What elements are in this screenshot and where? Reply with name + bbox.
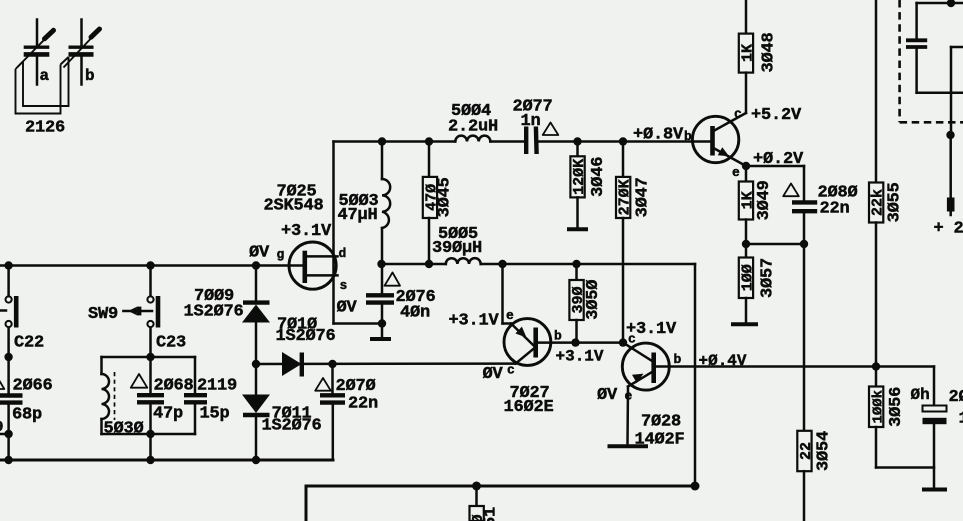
label 0V (source) [337, 299, 358, 318]
svg-text:+3.1V: +3.1V [556, 348, 604, 366]
label 2076 [396, 288, 436, 307]
svg-text:e: e [732, 165, 740, 180]
svg-text:4Øn: 4Øn [400, 304, 430, 323]
svg-text:+5.2V: +5.2V [751, 106, 802, 125]
svg-text:1n: 1n [521, 112, 541, 131]
label 1S2076 (7011) [262, 417, 322, 436]
svg-text:ØV: ØV [337, 299, 358, 318]
label 3045 [436, 177, 455, 217]
svg-text:SW9: SW9 [88, 305, 118, 324]
svg-text:3Ø48: 3Ø48 [760, 32, 779, 72]
tank group bottom wire y=434 [102, 433, 196, 436]
capacitor C2076 40n [366, 295, 394, 336]
label 2SK548 [264, 197, 324, 216]
cut label 10 [959, 410, 963, 429]
label + 2 (cut) [934, 220, 963, 239]
label +0.8V [633, 126, 684, 145]
label 7010 [277, 316, 317, 335]
svg-text:ØV: ØV [597, 386, 618, 405]
pin label b [85, 67, 95, 85]
module capacitor [906, 3, 963, 93]
node dot at (951,3) [947, 0, 955, 7]
ground bar (right cap) [922, 488, 947, 492]
top wire y=141.5 (drain net) [334, 140, 713, 143]
svg-text:1ØØk: 1ØØk [871, 390, 887, 424]
label 3057 [759, 258, 778, 298]
label 5005 [438, 225, 478, 244]
svg-text:e: e [506, 308, 514, 323]
node dot at (876,366.5) [872, 362, 880, 370]
node dot at (950.5,135) [946, 131, 954, 139]
node dot at (746,244) [742, 240, 750, 248]
label 2077 [513, 98, 553, 117]
resistor R3047 270K [616, 142, 634, 343]
resistor R3056 100k [869, 367, 934, 468]
capacitor C2070 22n [320, 364, 345, 460]
resistor R3046 120K [570, 142, 588, 228]
label 2070 [336, 377, 376, 396]
dashed module outline [900, 0, 963, 122]
capacitor C2080 22n [792, 166, 817, 244]
pin label b (7028) [674, 352, 682, 367]
wire y=244 [746, 243, 804, 246]
node dot at (256,364) [252, 360, 260, 368]
label +3.1V (7028 collector) [626, 320, 677, 339]
svg-text:a: a [40, 67, 50, 85]
ground bar (7028 emitter) [608, 444, 649, 448]
pin label b (7027) [554, 329, 562, 344]
resistor R3054 22 [797, 431, 815, 521]
label 0h [911, 386, 930, 404]
adjustment triangle of 2076 [385, 273, 401, 286]
pin label d [339, 246, 347, 261]
wire: diode row y=364 to 7027 collector [256, 362, 516, 365]
inductor L5003 47uH [382, 142, 390, 295]
svg-text:3Ø45: 3Ø45 [436, 177, 455, 217]
svg-text:2Ø81: 2Ø81 [949, 388, 963, 407]
label +3.1V (7027 emitter) [449, 312, 500, 331]
switch SW9 / C23 leads [149, 266, 152, 358]
capacitor C2066 68p (left edge) [0, 357, 23, 434]
svg-text:12ØK: 12ØK [571, 159, 588, 195]
node dot at (150.5,265.5) [146, 261, 154, 269]
node dot at (382,141.5) [378, 137, 386, 145]
svg-text:22n: 22n [820, 200, 850, 219]
pin label g [277, 247, 285, 262]
wire x=804 down from 2080 through 3054 [803, 244, 806, 431]
resistor R3045 470 [423, 142, 441, 265]
label 47p [153, 405, 183, 424]
svg-text:c: c [507, 363, 515, 378]
svg-text:e: e [625, 389, 633, 404]
svg-text:+Ø.8V: +Ø.8V [633, 126, 684, 145]
node dot at (429,264) [425, 260, 433, 268]
node dot at (256,460) [252, 456, 260, 464]
pin label e (7027) [506, 308, 514, 323]
variable capacitor C2126b [64, 20, 100, 85]
svg-text:39ØµH: 39ØµH [432, 239, 482, 258]
label +0.2V [753, 150, 804, 169]
node dot at (150.5,434) [146, 430, 154, 460]
label 2068 [154, 377, 194, 396]
svg-text:+ 2: + 2 [934, 220, 963, 239]
switch C23 contacts and bar [147, 296, 158, 328]
transistor Q top-right (emitter follower) [692, 113, 746, 166]
svg-text:3Ø51: 3Ø51 [482, 507, 501, 521]
inductor L5004 2.2uH [455, 136, 490, 142]
svg-text:15p: 15p [200, 405, 230, 424]
label 22n [348, 395, 378, 414]
label 3047 [634, 177, 653, 217]
svg-text:+Ø.4V: +Ø.4V [699, 352, 747, 370]
svg-text:68p: 68p [12, 406, 42, 425]
node dot at (8.6,265.5) [4, 261, 12, 269]
module top wire y=3 [917, 2, 963, 5]
svg-text:1ØØ: 1ØØ [739, 264, 756, 291]
svg-text:C23: C23 [156, 334, 186, 353]
pin label c (7027) [507, 363, 515, 378]
svg-text:g: g [277, 247, 285, 262]
label 2119 [197, 377, 237, 396]
svg-text:2Ø66: 2Ø66 [13, 377, 53, 396]
svg-text:3Ø57: 3Ø57 [759, 258, 778, 298]
variable capacitor C2126a [18, 20, 54, 85]
pin label s [340, 278, 348, 293]
svg-text:1S2Ø76: 1S2Ø76 [262, 417, 322, 436]
node dot at (575.5,342.6) [571, 338, 579, 346]
svg-text:1K: 1K [739, 191, 756, 209]
svg-text:47p: 47p [153, 405, 183, 424]
label 2.2uH [448, 118, 498, 137]
svg-text:3Ø5Ø: 3Ø5Ø [584, 280, 603, 320]
base wire of 7028 y=366.5 to the right [654, 365, 934, 368]
label C22 [14, 334, 44, 353]
node dot at (150.5,460) [146, 456, 154, 464]
label 7011 [272, 405, 312, 424]
svg-text:+3.1V: +3.1V [281, 222, 332, 241]
label 47uH [338, 206, 378, 225]
capacitor C2068 47p [137, 357, 164, 434]
resistor R3057 100 [739, 244, 757, 322]
pin label b (top transistor) [684, 129, 692, 144]
node dot at (8.6,460) [4, 456, 12, 464]
tank group top wire y=357 [102, 356, 196, 359]
label 3054 [815, 431, 834, 471]
SW9 actuator arrow [123, 307, 152, 316]
svg-text:3Ø47: 3Ø47 [634, 177, 653, 217]
label 22n (2080) [820, 200, 850, 219]
svg-text:3Ø54: 3Ø54 [815, 431, 834, 471]
resistor R3049 1K [739, 166, 757, 244]
svg-text:2Ø7Ø: 2Ø7Ø [336, 377, 376, 396]
adjustment triangle of 2077 [543, 123, 559, 136]
node dot at (695,486) [691, 482, 700, 491]
svg-text:1Ø: 1Ø [959, 410, 963, 429]
diode D7010 1S2076 [282, 352, 302, 377]
svg-text:1S2Ø76: 1S2Ø76 [184, 303, 244, 322]
svg-text:b: b [85, 67, 95, 85]
node dot at (381.5,264) [377, 260, 385, 268]
svg-text:3Ø49: 3Ø49 [755, 180, 774, 220]
electrolytic capacitor (right edge) [923, 367, 947, 488]
label 5030 [104, 420, 144, 439]
svg-text:47µH: 47µH [338, 206, 378, 225]
wire y=166 from emitter to 2080 [746, 165, 804, 168]
svg-text:1K: 1K [739, 44, 756, 62]
pin label e (top transistor) [732, 165, 740, 180]
svg-text:b: b [684, 129, 692, 144]
label 1S2076 (7010) [276, 327, 336, 346]
svg-text:3Ø46: 3Ø46 [589, 157, 608, 197]
label 7028 [641, 413, 681, 432]
ground bar (3057) [731, 322, 758, 326]
label 1602E [504, 398, 554, 417]
label +0.4V [699, 352, 747, 370]
node dot at (476.5,486) [472, 482, 481, 491]
label 3049 [755, 180, 774, 220]
label 390uH [432, 239, 482, 258]
label 7027 [510, 384, 550, 403]
resistor R3055 22k column [869, 0, 887, 367]
label 3055 [886, 182, 905, 222]
svg-text:2.2uH: 2.2uH [448, 118, 498, 137]
off-page arrow down [949, 135, 952, 215]
ground bar (2076 / source) [370, 337, 391, 341]
svg-text:2126: 2126 [25, 119, 65, 138]
label 40n [400, 304, 430, 323]
node dot at (8.6,357) [4, 353, 12, 361]
svg-text:s: s [340, 278, 348, 293]
svg-text:22: 22 [798, 442, 815, 460]
resistor R3050 390 [569, 264, 587, 343]
capacitor C2119 15p [184, 357, 207, 434]
label SW9 [88, 305, 118, 324]
svg-text:16Ø2E: 16Ø2E [504, 398, 554, 417]
module inner wire right branch [951, 47, 963, 135]
pin label e (7028) [625, 389, 633, 404]
svg-text:+3.1V: +3.1V [449, 312, 500, 331]
node dot at (502.5,264) [498, 260, 506, 268]
svg-text:27ØK: 27ØK [617, 179, 634, 215]
svg-text:ØV: ØV [249, 244, 270, 263]
label 2080 [818, 184, 858, 203]
resistor R3051 (cut at bottom) [470, 486, 488, 521]
lower bus wire y=486 [306, 486, 695, 521]
switch C22 contact leads [7, 266, 10, 358]
svg-text:c: c [628, 332, 636, 347]
wire: gate net horizontal y=265.5 from left edge to FET gate [0, 264, 305, 267]
cut label 9 [0, 419, 4, 436]
pin label c (top transistor) [734, 107, 742, 122]
label 7025 [277, 183, 317, 202]
base wire y=342.6 between 7027 and 7028 [576, 341, 624, 344]
label 1n [521, 112, 541, 131]
svg-text:22n: 22n [348, 395, 378, 414]
transistor Q7028 1402F [622, 343, 669, 444]
label 7009 [194, 287, 234, 306]
label +3.1V (between bases) [556, 348, 604, 366]
label 0V (7028 emitter) [597, 386, 618, 405]
adjustment triangle of 2066 (cut at edge) [0, 376, 4, 389]
label 5003 [339, 192, 379, 211]
ground bar (3046) [567, 227, 588, 231]
label 1402F [635, 431, 685, 450]
label 2066 [13, 377, 53, 396]
svg-text:c: c [734, 107, 742, 122]
main bottom wire y=460 [0, 459, 333, 462]
diode D7011 1S2076 [242, 364, 270, 460]
label 5004 [451, 102, 491, 121]
svg-text:ØV: ØV [483, 365, 504, 384]
label 2126 [25, 119, 65, 138]
svg-text:b: b [674, 352, 682, 367]
FET channel wire x=333.5 (drain up / source down) [334, 142, 383, 324]
label +5.2V [751, 106, 802, 125]
svg-text:2119: 2119 [197, 377, 237, 396]
node dot at (8.6,434) with left stub [0, 430, 13, 460]
svg-text:b: b [554, 329, 562, 344]
node dot at (332.5,364) [328, 360, 336, 368]
svg-text:Øh: Øh [911, 386, 930, 404]
svg-text:7Ø28: 7Ø28 [641, 413, 681, 432]
gang coupling bracket of 2126 [16, 57, 69, 114]
switch C22 contacts and bar [0, 296, 16, 328]
svg-text:2SK548: 2SK548 [264, 197, 324, 216]
adjustment triangle of 2080 [783, 184, 799, 197]
adjustment triangle of 2070 [315, 378, 331, 391]
node dot at (623,342.6) [619, 338, 627, 346]
svg-text:1S2Ø76: 1S2Ø76 [276, 327, 336, 346]
pin label a [40, 67, 50, 85]
label 3051 (cut) [482, 507, 501, 521]
label 0V c (7027 collector) [483, 365, 504, 384]
inductor L5030 [102, 357, 115, 434]
cut label 2081 [949, 388, 963, 407]
mid row wire y=264 [382, 264, 696, 486]
diode D7009 1S2076 [242, 266, 270, 365]
transistor Q7027 1602E [503, 264, 576, 365]
svg-text:2Ø68: 2Ø68 [154, 377, 194, 396]
label 3046 [589, 157, 608, 197]
node dot at (623,141.5) [619, 137, 627, 145]
capacitor C2077 1n (series) [526, 127, 536, 155]
svg-text:14Ø2F: 14Ø2F [635, 431, 685, 450]
svg-text:3Ø55: 3Ø55 [886, 182, 905, 222]
label 0V (gate) [249, 244, 270, 263]
adjustment triangle of 2068 [131, 374, 148, 388]
inductor L5005 390uH [446, 258, 481, 264]
node dot at (256,265.5) [252, 261, 260, 269]
label 68p [12, 406, 42, 425]
node dot at (576.5,264) [572, 260, 580, 268]
node dot at (382,323.5) [378, 319, 386, 327]
node dot at (746,166) [742, 162, 750, 170]
svg-text:5Ø3Ø: 5Ø3Ø [104, 420, 144, 439]
node dot at (150.5,357) [146, 353, 154, 361]
node dot at (429,141.5) [425, 137, 433, 145]
node dot at (804,244) [800, 240, 808, 248]
label 3056 [887, 387, 906, 427]
FET 7025 2SK548 [289, 242, 338, 289]
svg-text:d: d [339, 246, 347, 261]
label +3.1V (FET) [281, 222, 332, 241]
label 3050 [584, 280, 603, 320]
label C23 [156, 334, 186, 353]
resistor R3048 1K [739, 0, 757, 113]
label 15p [200, 405, 230, 424]
node dot at (577.5,141.5) [573, 137, 581, 145]
label 1S2076 (7009) [184, 303, 244, 322]
pin label c (7028) [628, 332, 636, 347]
label 3048 [760, 32, 779, 72]
svg-text:C22: C22 [14, 334, 44, 353]
svg-text:3Ø56: 3Ø56 [887, 387, 906, 427]
svg-text:22k: 22k [870, 189, 887, 216]
